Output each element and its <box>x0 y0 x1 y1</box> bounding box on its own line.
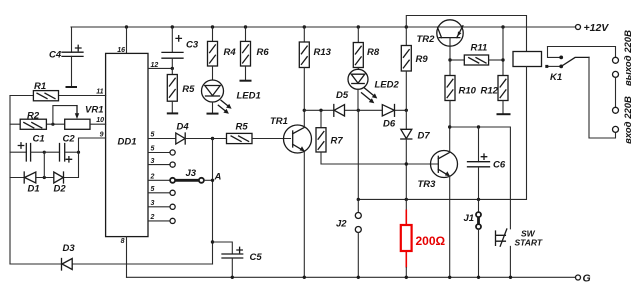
terminal 220V out upper <box>613 57 619 63</box>
terminal +12V <box>576 22 610 34</box>
svg-text:+12V: +12V <box>584 22 610 34</box>
node junction R7 top <box>319 109 322 112</box>
wire linking output/input neutral terminals <box>615 77 617 107</box>
node junction C6 bottom/J1 <box>477 198 480 201</box>
ground below LED1 <box>207 113 219 115</box>
capacitor C3 <box>162 27 199 68</box>
svg-text:R6: R6 <box>257 47 270 58</box>
wire A column vertical <box>212 139 214 265</box>
svg-text:D6: D6 <box>383 119 396 130</box>
wire collector row to switch column upper <box>450 127 511 229</box>
wire TR2 base to R10/R11 <box>450 59 464 61</box>
jumper J3 to node A <box>148 168 213 183</box>
node junction rail/R9/coil loop <box>405 25 408 28</box>
svg-text:200Ω: 200Ω <box>416 234 446 248</box>
resistor R6 <box>241 27 270 81</box>
ground below R12 <box>497 113 511 115</box>
node junction C3/R5 <box>171 67 174 70</box>
LED LED1 <box>202 80 261 114</box>
svg-text:D1: D1 <box>28 184 40 195</box>
capacitor C6 <box>468 127 506 199</box>
resistor R11 <box>464 43 503 66</box>
terminal 220V out lower <box>613 71 619 77</box>
node junction D7/TR3 base tap <box>405 162 408 165</box>
relay coil K1 <box>513 52 562 84</box>
IC DD1 <box>106 53 148 236</box>
svg-text:2: 2 <box>150 174 155 181</box>
wire TR1 collector up to R13 <box>303 110 305 127</box>
svg-text:5: 5 <box>151 146 155 153</box>
wire D3 row <box>10 263 213 265</box>
resistor R4 <box>208 27 237 80</box>
node A <box>211 172 222 183</box>
wire +12V loop to relay coil <box>406 16 526 52</box>
ground below R6 <box>240 80 252 82</box>
svg-text:выход 220В: выход 220В <box>623 30 633 86</box>
capacitor C1 <box>10 134 45 162</box>
DD1 right pin row 5 <box>148 146 175 156</box>
node junction collector/D5 row <box>303 109 306 112</box>
svg-text:A: A <box>214 172 222 183</box>
diode D6 <box>382 105 396 130</box>
ground below R5 <box>167 112 178 114</box>
wire DD1 pin5 to D4 <box>148 138 176 140</box>
resistor R1 <box>10 81 106 101</box>
node junction base/R10/R11 <box>448 58 451 61</box>
potentiometer VR1 <box>53 105 106 130</box>
node junction coil return/LED2 column <box>357 198 360 201</box>
wire DD1 pin 8 down to ground rail <box>126 237 128 278</box>
svg-text:R7: R7 <box>331 136 344 147</box>
diode D3 <box>62 243 76 270</box>
resistor R5 horizontal <box>227 122 291 144</box>
terminal 220V in lower <box>613 126 619 132</box>
svg-text:D5: D5 <box>336 90 349 101</box>
wire pin 9 <box>79 138 106 152</box>
DD1 right pin row 5b <box>148 186 175 195</box>
svg-text:3: 3 <box>151 200 155 207</box>
capacitor C5 <box>213 242 263 277</box>
svg-text:R12: R12 <box>481 86 499 97</box>
node junction C5 branch <box>211 240 214 243</box>
resistor R8 <box>353 27 380 69</box>
svg-text:12: 12 <box>151 62 159 69</box>
svg-text:вход 220В: вход 220В <box>623 96 633 144</box>
svg-text:K1: K1 <box>550 72 562 83</box>
switch SW START <box>496 229 543 248</box>
resistor R9 <box>401 27 428 110</box>
wire contact to output terminal <box>548 47 616 58</box>
svg-text:R11: R11 <box>471 43 488 54</box>
node junction J2/ground rail <box>357 276 360 279</box>
DD1 right pin row 2b <box>148 214 175 223</box>
wire bottom ground rail <box>127 276 576 278</box>
svg-text:R8: R8 <box>367 47 380 58</box>
wire DD1 pin 12 <box>148 67 172 69</box>
jumper J1 <box>464 199 482 277</box>
node junction rail/pin16 <box>125 25 128 28</box>
svg-text:TR3: TR3 <box>418 179 437 190</box>
svg-text:D7: D7 <box>418 131 431 142</box>
svg-text:5: 5 <box>151 132 155 139</box>
node junction coil return/200ohm column <box>405 198 408 201</box>
svg-text:DD1: DD1 <box>118 137 137 148</box>
svg-text:C2: C2 <box>63 134 76 145</box>
resistor 200 ohm modification <box>401 199 446 277</box>
node junction D1/D2 <box>43 176 46 179</box>
node junction J1/ground rail <box>477 276 480 279</box>
LED LED2 <box>348 69 400 110</box>
svg-text:J3: J3 <box>186 168 197 179</box>
resistor R7 <box>316 110 438 164</box>
node junction R2/VR1 wiper tap <box>51 123 54 126</box>
svg-text:G: G <box>583 273 591 285</box>
diode D1 <box>24 172 39 195</box>
node junction rail/R4 <box>211 25 214 28</box>
diode D2 <box>54 172 67 195</box>
resistor R10 <box>445 60 477 127</box>
svg-text:LED1: LED1 <box>237 90 261 101</box>
wire DD1 pin16 to rail <box>126 27 128 53</box>
svg-text:START: START <box>515 238 543 248</box>
wire R12 column from rail <box>502 27 504 76</box>
resistor R5 vertical <box>167 68 195 113</box>
svg-text:R10: R10 <box>459 86 477 97</box>
transistor TR1 <box>270 116 312 153</box>
svg-text:9: 9 <box>100 132 104 139</box>
node junction TR1 emitter/ground rail <box>303 276 306 279</box>
node junction rail/C3 <box>171 25 174 28</box>
wire D1 D2 row <box>10 152 79 177</box>
wire TR3 emitter down to ground rail <box>449 176 451 277</box>
diode D4 <box>176 122 227 145</box>
svg-text:10: 10 <box>96 117 104 124</box>
DD1 right pin row 3b <box>148 200 175 209</box>
node junction LED2 column/D5 row <box>357 109 360 112</box>
wire TR3 collector up <box>449 127 451 152</box>
wire relay coil return <box>358 67 526 200</box>
svg-text:8: 8 <box>121 238 125 245</box>
node junction C6 top <box>477 125 480 128</box>
wire top +12V rail <box>71 26 575 28</box>
terminal G <box>576 273 591 285</box>
wire C1C2 junction down to diode row <box>43 152 45 177</box>
svg-text:D2: D2 <box>54 184 67 195</box>
svg-text:5: 5 <box>151 186 155 193</box>
ground below C4 <box>66 86 78 88</box>
terminal 220V in upper <box>613 107 619 113</box>
jumper J2 open <box>336 199 361 277</box>
svg-text:C6: C6 <box>493 160 506 171</box>
svg-text:J2: J2 <box>336 219 347 230</box>
svg-text:J1: J1 <box>464 213 475 224</box>
svg-text:R4: R4 <box>224 47 237 58</box>
svg-text:TR2: TR2 <box>417 34 436 45</box>
node junction switch column/ground rail <box>509 276 512 279</box>
node junction 200ohm/ground rail <box>405 276 408 279</box>
svg-text:3: 3 <box>151 158 155 165</box>
svg-text:R1: R1 <box>34 81 46 92</box>
svg-text:R9: R9 <box>416 54 429 65</box>
svg-text:11: 11 <box>96 89 103 96</box>
svg-text:VR1: VR1 <box>85 105 103 116</box>
wire left vertical bus <box>9 96 11 265</box>
node junction D6/R9 column <box>405 109 408 112</box>
relay contact K1 <box>545 47 589 69</box>
svg-text:R2: R2 <box>27 111 40 122</box>
node junction C1/C2 <box>43 151 46 154</box>
wire D5 D6 row <box>304 109 406 111</box>
svg-text:LED2: LED2 <box>375 80 400 91</box>
node junction rail/R6 <box>244 25 247 28</box>
node junction D4/R5/A column <box>211 137 214 140</box>
capacitor C4 <box>49 27 83 87</box>
wire contact lever to input terminal <box>589 57 616 138</box>
node junction rail/R13 <box>303 25 306 28</box>
wire switch column lower <box>509 246 511 277</box>
svg-text:R13: R13 <box>314 47 332 58</box>
capacitor C2 <box>44 134 78 163</box>
node junction TR3 emitter/ground rail <box>448 276 451 279</box>
DD1 right pin row 3 <box>148 158 175 167</box>
wire LED2 column down to J2 row <box>357 110 359 199</box>
svg-text:C4: C4 <box>49 50 62 61</box>
node junction C5/ground rail <box>231 276 234 279</box>
node junction R11/R12 <box>501 58 504 61</box>
wire TR1 emitter down to ground rail <box>303 151 305 277</box>
svg-text:D4: D4 <box>177 122 190 133</box>
resistor R13 <box>299 27 331 110</box>
transistor TR2 <box>417 20 464 60</box>
svg-text:C1: C1 <box>33 134 45 145</box>
diode D7 <box>401 110 431 199</box>
resistor R2 <box>10 111 65 130</box>
node junction R10/TR3 collector <box>448 125 451 128</box>
node junction rail/R8 <box>357 25 360 28</box>
diode D5 <box>334 90 349 116</box>
node junction rail/R12 column <box>501 25 504 28</box>
resistor R12 <box>481 76 509 115</box>
svg-text:C3: C3 <box>186 40 199 51</box>
svg-text:R5: R5 <box>236 122 249 133</box>
node junction C2 to pin9 <box>77 151 80 154</box>
svg-text:2: 2 <box>150 214 155 221</box>
transistor TR3 <box>418 151 458 191</box>
svg-text:C5: C5 <box>250 252 263 263</box>
svg-text:D3: D3 <box>63 243 76 254</box>
svg-text:R5: R5 <box>182 84 195 95</box>
svg-text:TR1: TR1 <box>270 116 288 127</box>
